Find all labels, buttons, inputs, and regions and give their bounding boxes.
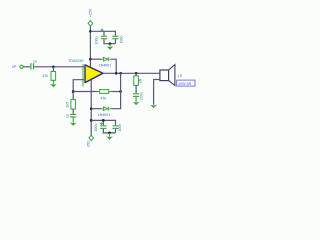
- wire input to C1: [23, 66, 30, 68]
- svg-text:1R: 1R: [139, 78, 143, 83]
- wire output node vertical down to D2: [111, 73, 120, 108]
- diode D2 1N4001: [101, 107, 111, 111]
- svg-text:1u: 1u: [65, 114, 69, 118]
- junction bottom ground rail: [108, 132, 111, 135]
- ground top rail: [107, 46, 114, 49]
- svg-text:1N4001: 1N4001: [98, 113, 111, 117]
- capacitor C7 220n plates: [133, 93, 139, 97]
- node junction input/R1: [52, 65, 55, 68]
- junction D1 tap: [89, 58, 92, 61]
- wire C5 bottom: [103, 129, 115, 133]
- wire R3 to C4: [72, 109, 74, 114]
- ground zobel: [133, 102, 140, 105]
- svg-text:-15V: -15V: [87, 140, 91, 148]
- junction feedback/output: [119, 72, 122, 75]
- connector +15V diamond: [88, 21, 93, 27]
- svg-text:100n: 100n: [118, 124, 122, 132]
- junction +rail corner: [89, 30, 92, 33]
- svg-text:47k: 47k: [100, 96, 106, 100]
- speaker horn: [169, 65, 175, 86]
- junction inv node: [72, 90, 75, 93]
- wire to top ground: [109, 44, 111, 47]
- svg-text:100u: 100u: [95, 37, 99, 45]
- junction top ground rail: [109, 42, 112, 45]
- resistor R3 1k5: [71, 100, 76, 109]
- ground input: [50, 84, 57, 87]
- capacitor C2 100u plus mark: [101, 29, 104, 32]
- svg-text:100n: 100n: [120, 36, 124, 44]
- ground inv network: [70, 123, 77, 126]
- wire C2 bottom: [104, 39, 115, 43]
- label box 10W 8R: [177, 80, 195, 86]
- wire op-amp -input: [73, 80, 84, 100]
- capacitor C4 1u plates: [70, 114, 76, 118]
- wire VS+ to D1 anode: [90, 58, 101, 60]
- capacitor C5 plates: [100, 125, 106, 129]
- svg-text:LS: LS: [178, 74, 183, 78]
- ground bottom rail: [106, 136, 113, 139]
- junction C5 tap: [102, 119, 105, 122]
- svg-text:1u: 1u: [33, 59, 37, 63]
- svg-text:10W 8R: 10W 8R: [178, 82, 191, 86]
- connector -15V diamond: [89, 135, 94, 141]
- ground speaker: [150, 105, 157, 108]
- wire VS- to D2 anode: [91, 108, 101, 110]
- svg-text:100u: 100u: [94, 124, 98, 132]
- resistor R2 47k feedback: [98, 90, 111, 94]
- svg-text:1k5: 1k5: [65, 102, 69, 108]
- diode D1 1N4001: [101, 57, 111, 61]
- wire R4 to C7: [135, 85, 137, 93]
- wire C6 bottom: [115, 129, 117, 133]
- wire op-amp output to speaker: [103, 72, 160, 74]
- junction D2 tap: [90, 107, 93, 110]
- capacitor C1: [30, 63, 34, 69]
- svg-text:1N4001: 1N4001: [99, 64, 112, 68]
- connector J1 input pin: [20, 65, 23, 68]
- wire zobel tap down: [135, 73, 137, 76]
- svg-text:I/P: I/P: [12, 65, 17, 69]
- wire +15V vertical to op-amp VS+: [89, 26, 91, 67]
- junction feedback right: [119, 90, 122, 93]
- svg-text:220n: 220n: [140, 92, 144, 100]
- resistor R1: [51, 72, 56, 81]
- wire D1 cathode to output node: [111, 59, 116, 73]
- wire to bottom ground: [109, 133, 111, 137]
- svg-text:47k: 47k: [42, 74, 48, 78]
- op-amp pins baseline green: [82, 64, 84, 87]
- capacitor C6 100n plates: [112, 125, 118, 129]
- capacitor C3 100n plates: [112, 36, 118, 40]
- svg-text:TDA2030: TDA2030: [68, 59, 83, 63]
- speaker LS1 box: [160, 70, 169, 81]
- op-amp U1 TDA2030 triangle: [85, 65, 103, 83]
- junction D1/output: [115, 72, 118, 75]
- junction -rail tap: [90, 119, 93, 122]
- wire +15V rail: [90, 31, 115, 35]
- capacitor C2 plates: [101, 36, 107, 40]
- wire R1 to ground: [52, 80, 54, 84]
- svg-text:+15V: +15V: [89, 8, 93, 17]
- wire -15V rail: [91, 120, 115, 125]
- wire C1 to op-amp +input: [34, 66, 84, 68]
- capacitor C5 100u plus mark: [100, 122, 103, 125]
- wire speaker bottom pin: [154, 80, 160, 105]
- junction zobel tap: [135, 72, 138, 75]
- wire feedback row right: [111, 91, 121, 93]
- wire C7 to ground: [135, 97, 137, 102]
- wire junction down to R1: [52, 67, 54, 72]
- wire C5 tap: [102, 120, 104, 125]
- wire feedback row left: [73, 91, 98, 93]
- resistor R4 1R: [134, 76, 139, 86]
- wire C2 tap: [103, 31, 105, 35]
- wire VS- vertical: [90, 80, 92, 136]
- wire C4 to ground: [72, 118, 74, 123]
- wire C3 bottom: [114, 39, 116, 43]
